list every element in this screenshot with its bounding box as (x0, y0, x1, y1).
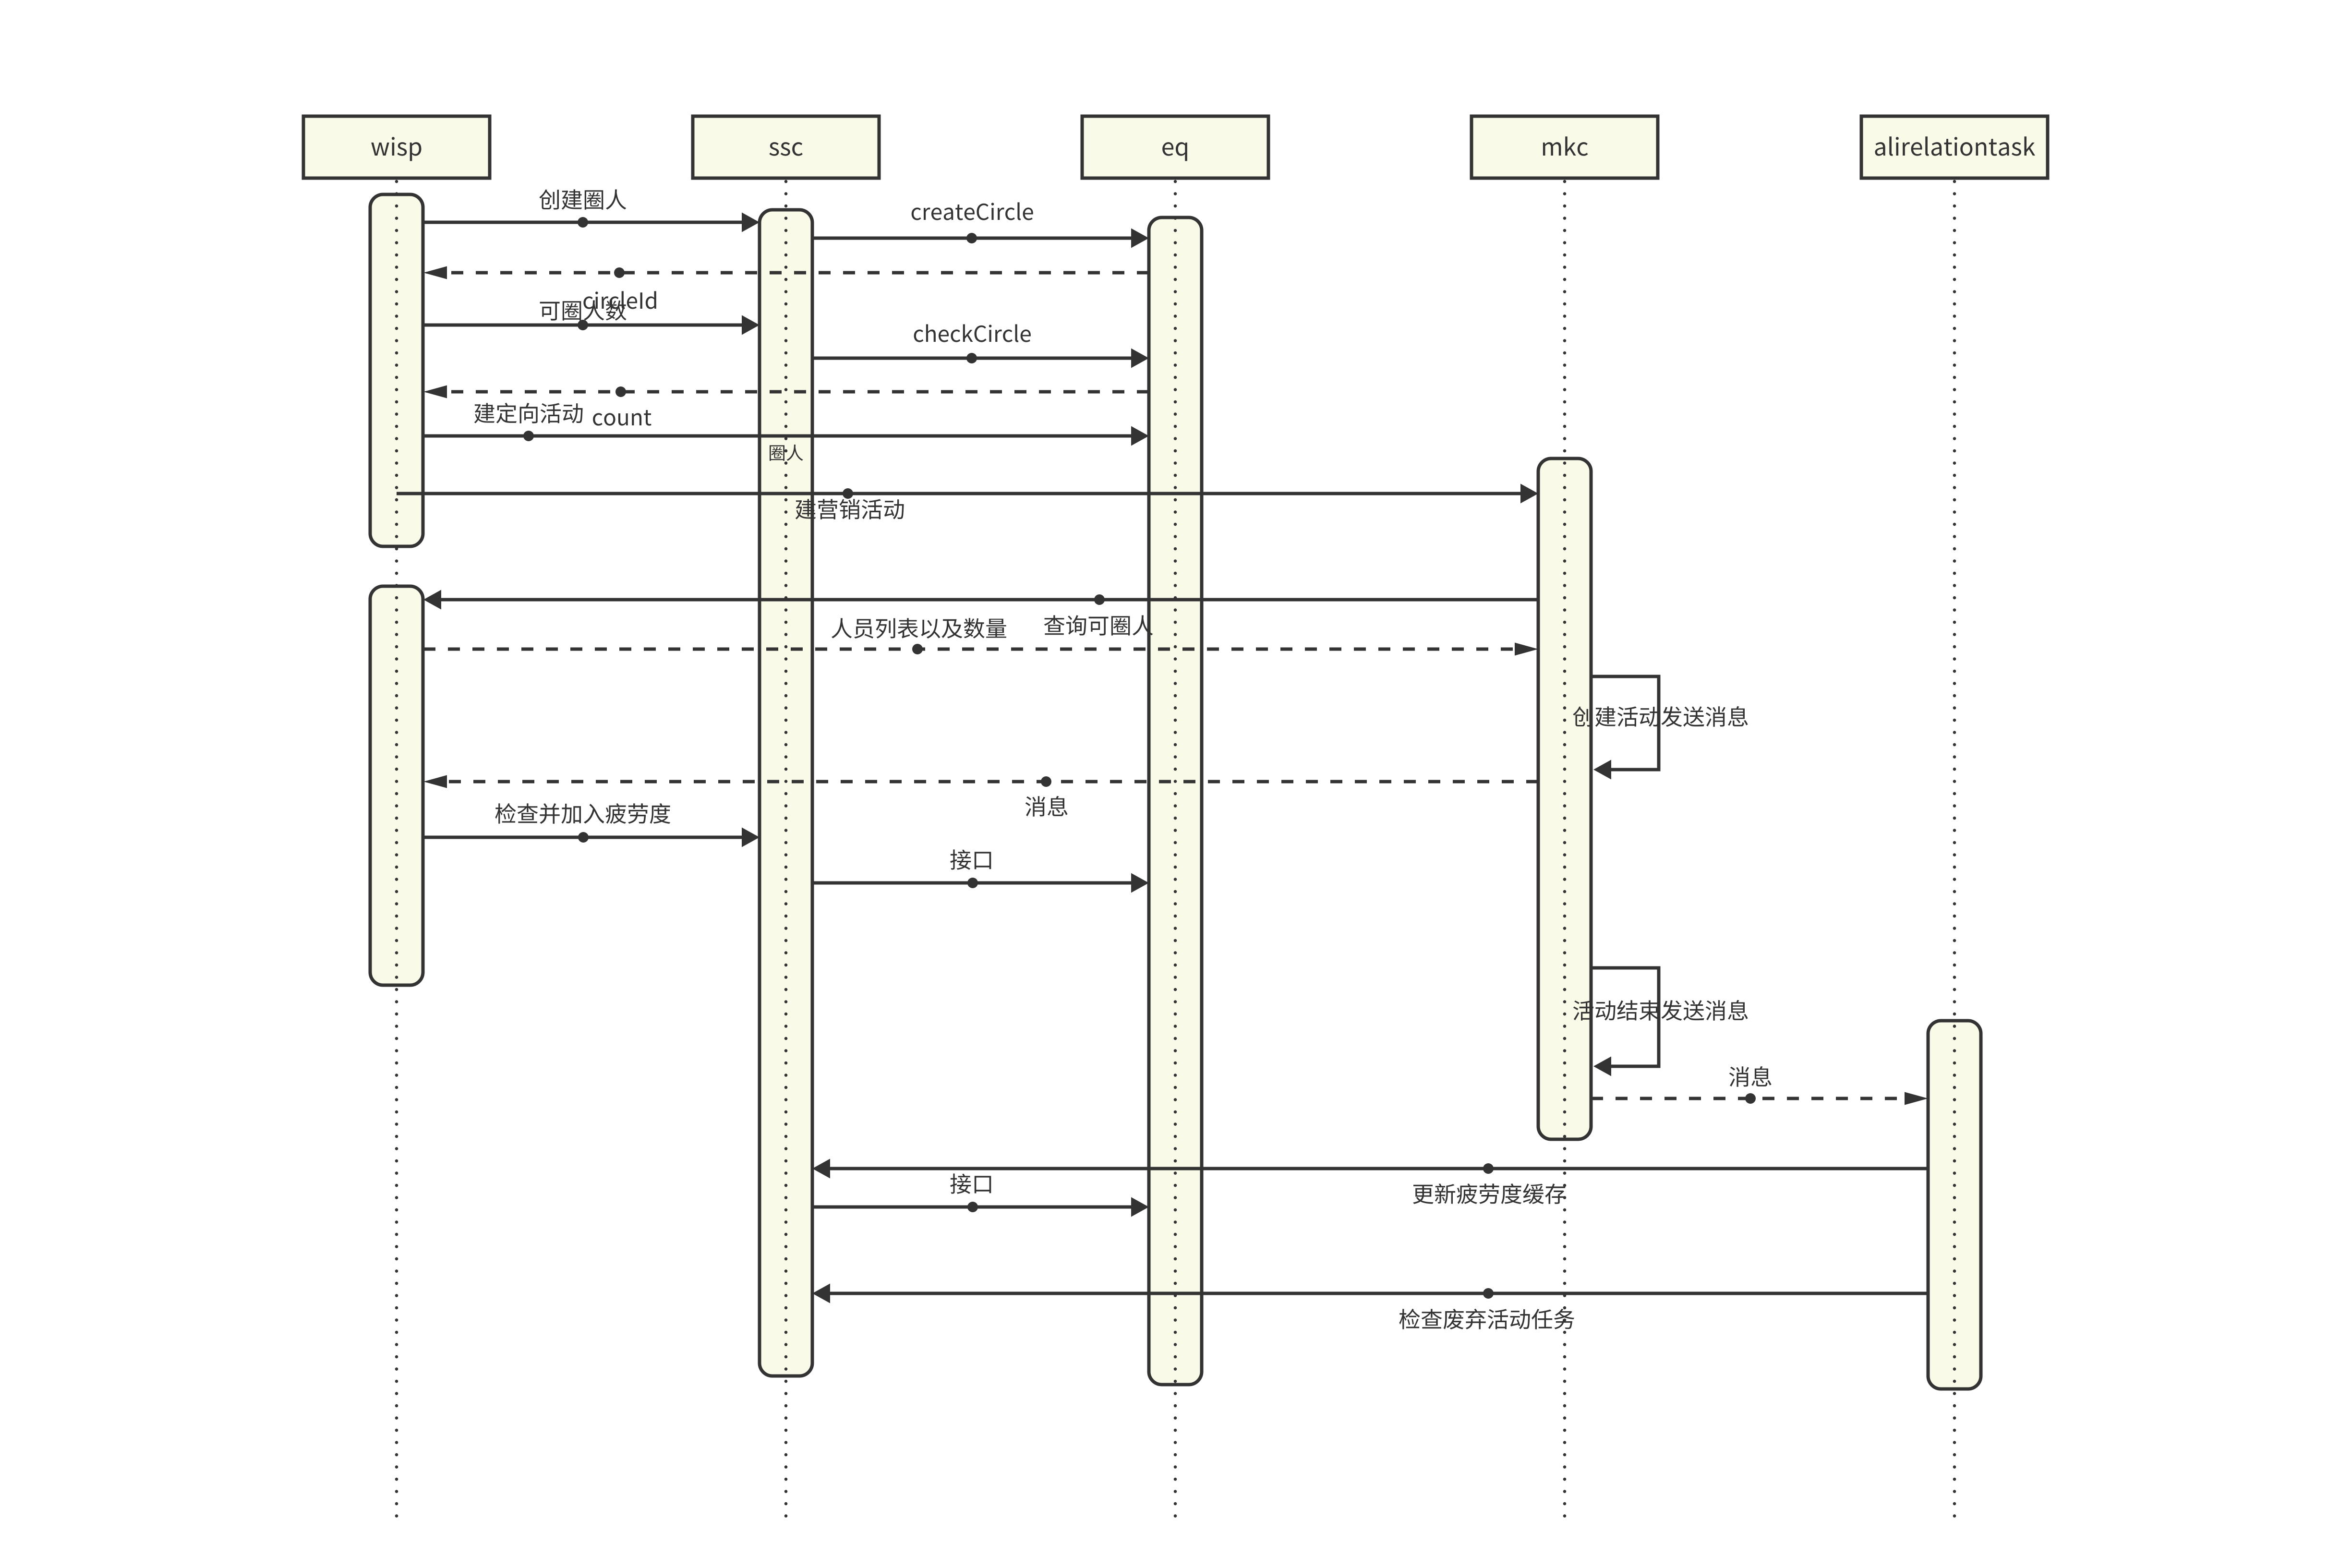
label 可圈人数 (540, 300, 627, 321)
activation bar wisp 2 (370, 586, 423, 985)
message 5 checkCircle ssc→eq (812, 349, 1149, 368)
message 15 更新疲劳度缓存 alirelationtask→ssc (812, 1159, 1928, 1179)
label 消息 1 (1025, 796, 1068, 817)
label createCircle (912, 202, 1033, 220)
label 更新疲劳度缓存 (1413, 1183, 1566, 1204)
message 11 消息 mkc⇢wisp (423, 775, 1538, 788)
label 圈人 (770, 445, 803, 461)
message 14 消息 mkc⇢alirelationtask (1591, 1092, 1928, 1105)
label 接口 2 (950, 1173, 991, 1194)
message 6 count eq⇢wisp (423, 386, 1149, 398)
self message 活动结束发送消息 mkc (1591, 968, 1659, 1076)
message 2 createCircle ssc→eq (812, 229, 1149, 248)
lifeline mkc (1563, 181, 1567, 1517)
message 17 检查废弃活动任务 alirelationtask→ssc (812, 1284, 1928, 1303)
label 活动结束发送消息 (1573, 1000, 1748, 1021)
label 人员列表以及数量 (832, 618, 1006, 639)
label 建营销活动 (796, 499, 904, 519)
lifeline wisp (395, 181, 398, 1517)
lifeline alirelationtask (1953, 181, 1956, 1517)
label count (593, 410, 651, 426)
message 1 创建圈人 wisp→ssc (423, 213, 760, 232)
label checkCircle (914, 324, 1031, 342)
label circleId (583, 291, 656, 309)
activation bar wisp 1 (370, 194, 423, 546)
message 10 人员列表以及数量 wisp⇢mkc (423, 643, 1538, 656)
label 消息 2 (1729, 1066, 1772, 1087)
label 创建活动发送消息 (1573, 706, 1748, 727)
label 检查废弃活动任务 (1399, 1309, 1575, 1329)
participant mkc header box (1472, 116, 1658, 178)
participant eq header box (1082, 116, 1268, 178)
message 3 circleId eq⇢wisp (423, 266, 1149, 279)
message 12 检查并加入疲劳度 wisp→ssc (423, 828, 760, 847)
message 13 接口 ssc→eq (812, 873, 1149, 893)
lifeline ssc (784, 181, 788, 1517)
message 16 接口 ssc→eq (812, 1197, 1149, 1217)
label 查询可圈人 (1044, 615, 1153, 635)
label 建定向活动 (474, 403, 583, 423)
self message 创建活动发送消息 mkc (1591, 676, 1659, 780)
message 8 圈人建营销活动 wisp→mkc (397, 484, 1538, 504)
participant alirelationtask header box (1861, 116, 2048, 178)
participant ssc header box (693, 116, 879, 178)
label 检查并加入疲劳度 (495, 803, 671, 824)
message 9 查询可圈人 mkc→wisp (423, 590, 1538, 610)
message 4 可圈人数 wisp→ssc (423, 315, 760, 335)
activation bar ssc (760, 210, 812, 1376)
label 接口 1 (950, 849, 991, 869)
label 创建圈人 (539, 189, 626, 209)
activation bar mkc (1538, 458, 1591, 1139)
activation bar eq (1149, 217, 1202, 1385)
message 7 建定向活动 wisp→eq (423, 426, 1149, 446)
lifeline eq (1174, 181, 1177, 1517)
participant wisp header box (303, 116, 490, 178)
activation bar alirelationtask (1928, 1021, 1981, 1389)
